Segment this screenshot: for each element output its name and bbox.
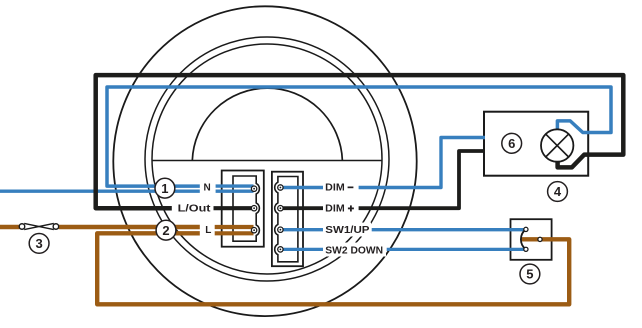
wire: blue loop N to lamp (top): [107, 87, 611, 186]
switch contacts: [521, 227, 542, 251]
terminal block left (inner scalloped): [233, 176, 259, 241]
wire: blue SW1/UP to switch: [372, 228, 524, 231]
wire: black L/Out stub to terminal: [214, 206, 254, 210]
wire: blue SW2 DOWN to switch: [387, 248, 524, 251]
terminal block right (inner scalloped): [275, 177, 298, 262]
callout 6: [502, 133, 522, 153]
wire: blue SW1/UP stub from terminal: [281, 228, 323, 231]
label backgrounds: [173, 181, 387, 257]
device outer circle: [113, 6, 416, 316]
svg-text:2: 2: [162, 223, 169, 238]
callout 4: [548, 182, 568, 202]
wire: blue DIM- to lamp box: [359, 138, 485, 188]
terminal screws right block: [278, 185, 283, 252]
lamp symbol: [541, 129, 573, 161]
svg-text:DIM: DIM: [325, 204, 345, 215]
terminal block right (outer): [272, 172, 303, 267]
svg-text:6: 6: [508, 136, 515, 151]
callout 5: [520, 264, 540, 284]
svg-text:SW2 DOWN: SW2 DOWN: [325, 245, 383, 256]
svg-text:5: 5: [526, 267, 533, 282]
svg-text:3: 3: [35, 236, 42, 251]
svg-text:SW1/UP: SW1/UP: [325, 225, 370, 236]
svg-text:L: L: [205, 225, 211, 236]
device ring circle A: [145, 37, 389, 281]
wire: blue N strand stubs to terminal: [216, 186, 254, 191]
callout 3: [29, 234, 49, 254]
device shoulder chord line: [152, 160, 382, 162]
fuse F1 on brown supply: [19, 223, 58, 229]
svg-text:4: 4: [554, 184, 562, 199]
callout 1: [155, 178, 175, 198]
svg-text:DIM: DIM: [325, 183, 345, 194]
svg-text:1: 1: [161, 181, 168, 196]
callout 2: [156, 220, 176, 240]
wire: blue DIM- stub from terminal: [281, 186, 323, 189]
wire: black DIM+ to lamp box: [359, 151, 485, 208]
lamp box U-luminaire: [484, 112, 588, 176]
wire: black DIM+ stub from terminal: [281, 206, 323, 210]
wire: blue N supply from left: [0, 189, 200, 192]
wire: brown loop L to switch via bottom: [97, 233, 569, 304]
wire: blue SW2 DOWN stub from terminal: [281, 248, 323, 251]
wire: brown L supply from left: [0, 225, 200, 229]
switch box S1: [511, 219, 552, 260]
wire: black L/Out loop to lamp (bottom): [96, 75, 624, 208]
wire: brown L strand stubs to terminal: [215, 227, 254, 233]
device ring circle B: [152, 44, 382, 274]
device dome arc: [192, 88, 342, 160]
svg-text:N: N: [204, 183, 211, 194]
terminal block left (outer): [222, 171, 264, 247]
terminal screws left block: [251, 186, 256, 233]
svg-text:L/Out: L/Out: [178, 204, 212, 215]
